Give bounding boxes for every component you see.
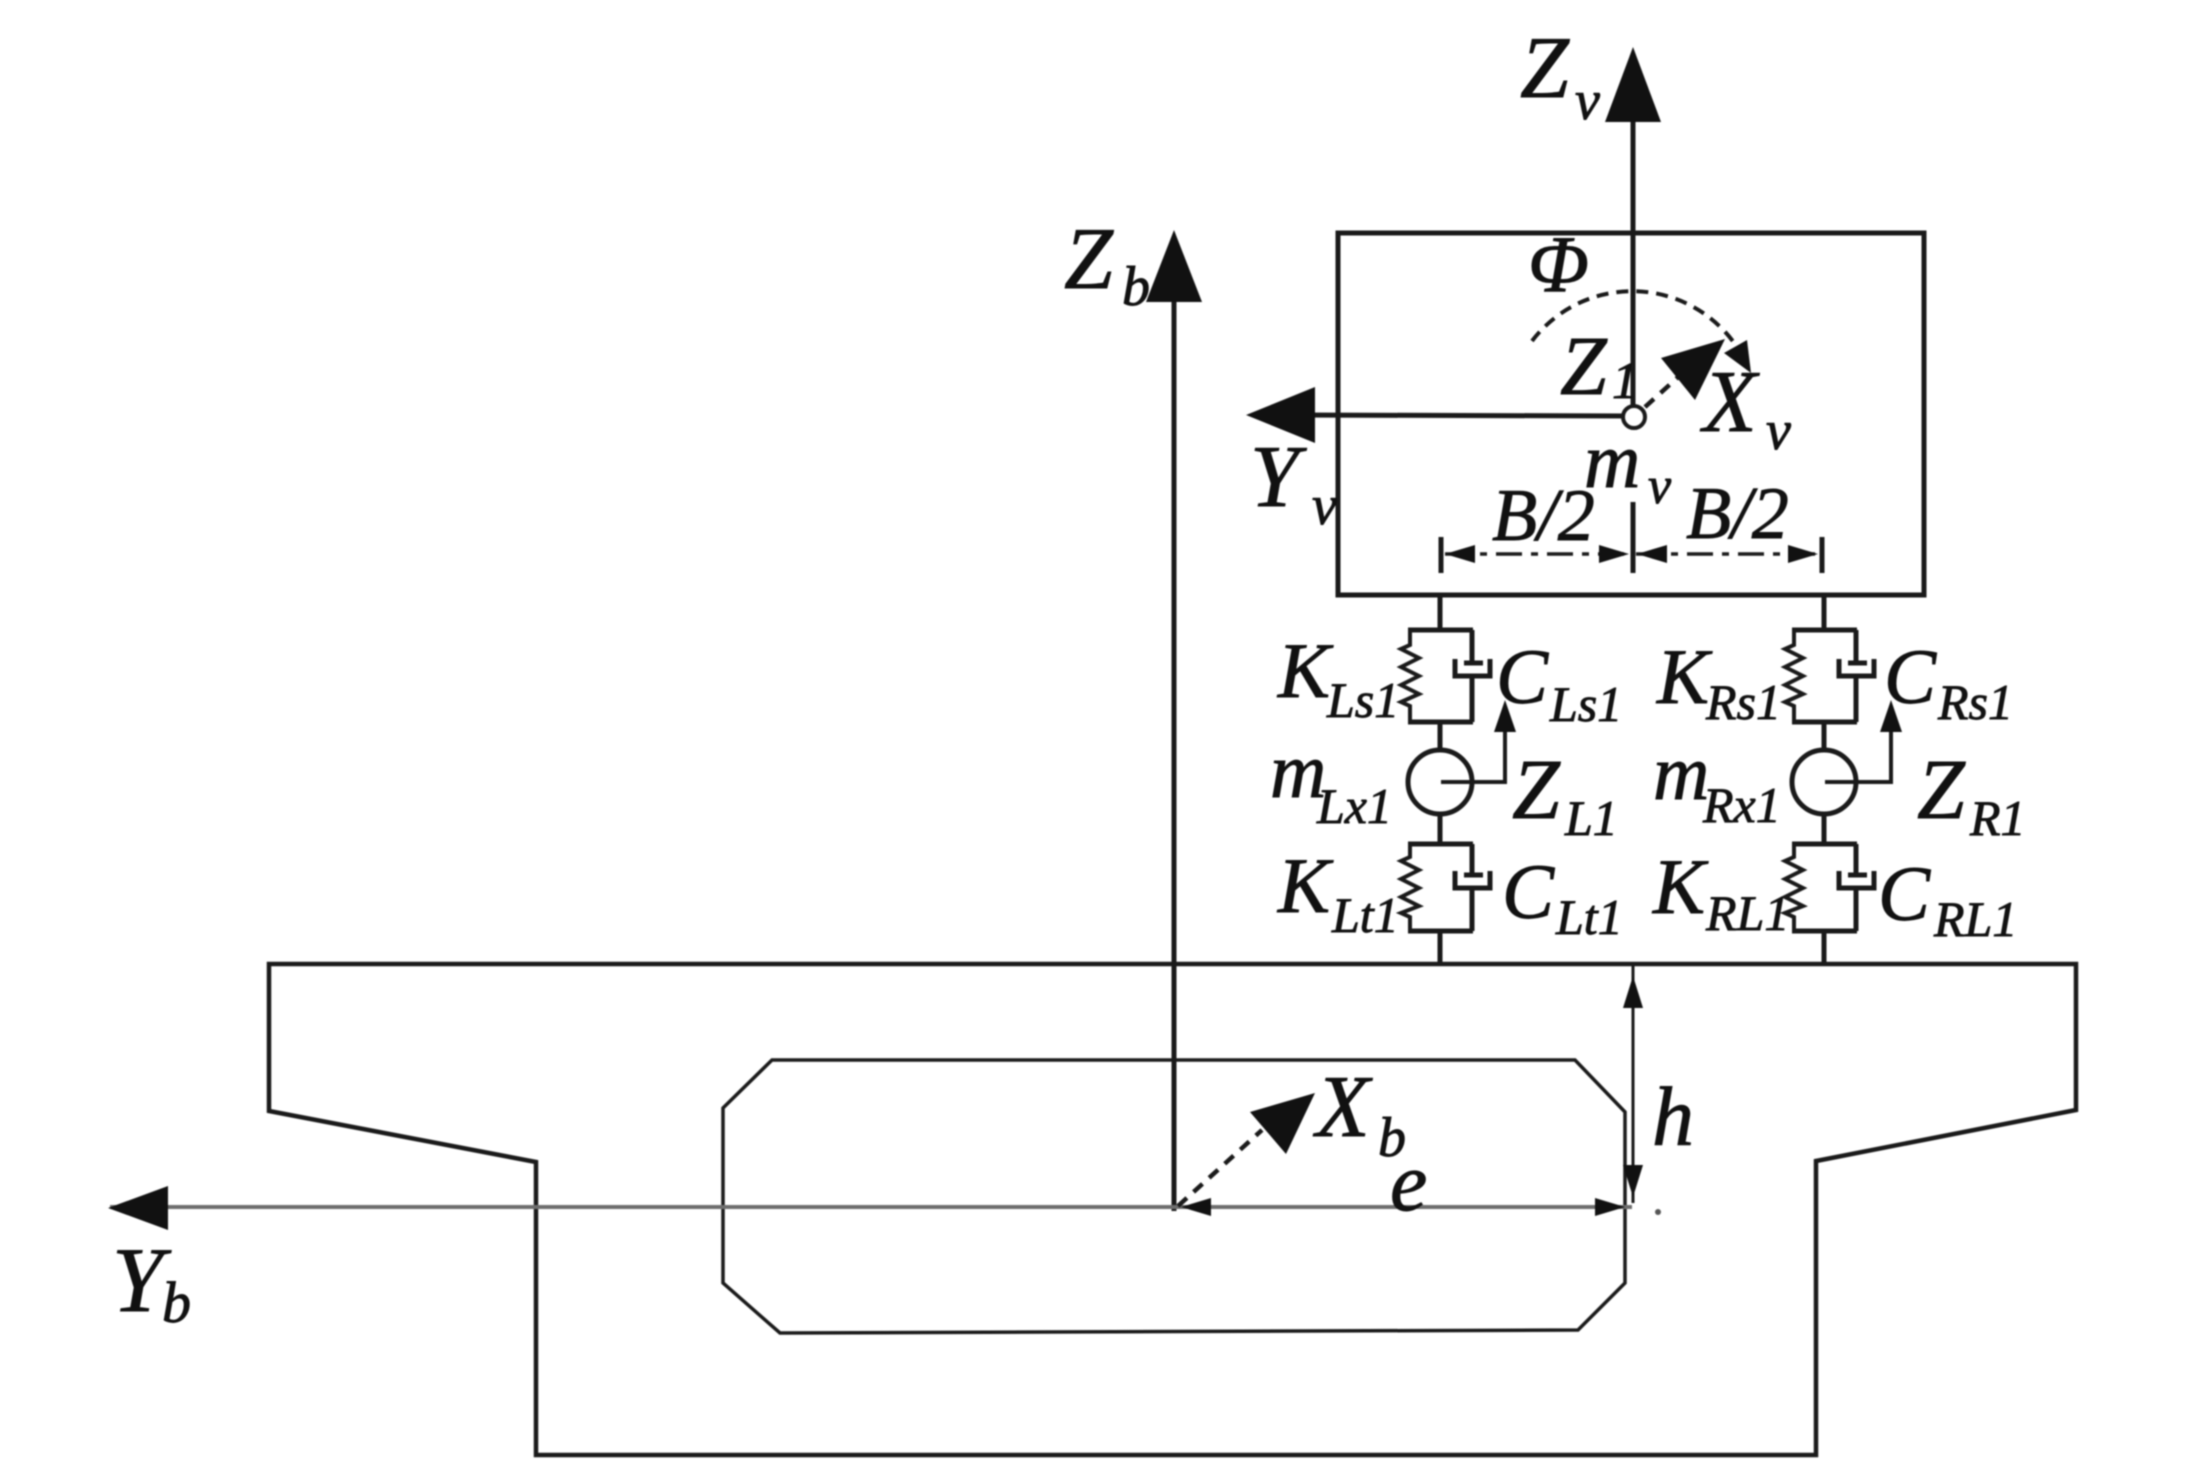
- e dimension arrowheads: [1181, 1198, 1211, 1216]
- ZL1 arrowhead: [1494, 700, 1516, 732]
- axis Xv arrow shaft: [1645, 360, 1697, 407]
- axis Yv arrowhead: [1246, 387, 1315, 443]
- svg-text:Ls1: Ls1: [1549, 676, 1622, 732]
- svg-text:Rs1: Rs1: [1937, 674, 2013, 730]
- wire bottom bar to right mass: [1822, 722, 1827, 752]
- wire mass to tire unit: [1438, 813, 1443, 844]
- wire bottom bar to mass: [1438, 722, 1443, 752]
- left suspension top bar: [1408, 628, 1473, 633]
- svg-text:Z: Z: [1917, 741, 1966, 837]
- damper CLt1 cup: [1455, 871, 1490, 888]
- wire right mass to tire unit: [1822, 813, 1827, 844]
- svg-text:K: K: [1652, 843, 1709, 930]
- damper CLs1 rod: [1470, 630, 1475, 661]
- mass center mv node: [1623, 406, 1645, 428]
- spring KRL1: [1785, 844, 1803, 931]
- h top arrowhead: [1623, 976, 1643, 1008]
- B/2 tick center: [1631, 502, 1636, 573]
- damper CLs1 cup: [1455, 659, 1490, 676]
- ZL1 arrow wire: [1441, 712, 1505, 782]
- svg-text:C: C: [1878, 850, 1931, 937]
- svg-text:v: v: [1648, 458, 1672, 515]
- svg-text:X: X: [1313, 1059, 1373, 1156]
- bridge box-girder outer outline: [269, 964, 2076, 1455]
- wire tire to deck: [1438, 931, 1443, 964]
- h dimension line: [1632, 966, 1635, 1203]
- left tire top bar: [1408, 842, 1473, 847]
- svg-text:Z: Z: [1064, 211, 1114, 308]
- svg-text:Rx1: Rx1: [1702, 777, 1781, 833]
- svg-text:Lt1: Lt1: [1555, 889, 1623, 945]
- damper CLt1 rod: [1470, 844, 1475, 873]
- svg-text:e: e: [1390, 1136, 1427, 1229]
- right suspension top bar: [1792, 628, 1857, 633]
- svg-text:1: 1: [1612, 353, 1638, 410]
- svg-text:Rs1: Rs1: [1705, 674, 1781, 730]
- stray dot: [1655, 1209, 1661, 1215]
- wheel mass mLx1: [1408, 750, 1472, 814]
- B/2 tick left: [1439, 537, 1444, 573]
- damper CRL1 rod: [1854, 844, 1859, 873]
- spring KLs1: [1401, 630, 1419, 722]
- svg-text:Φ: Φ: [1528, 221, 1589, 309]
- svg-text:v: v: [1312, 475, 1337, 537]
- damper CRs1 piston plate: [1848, 661, 1867, 666]
- axis Zb wire: [1172, 302, 1177, 1211]
- vehicle body box mv: [1338, 233, 1924, 595]
- svg-text:Lt1: Lt1: [1331, 887, 1399, 943]
- axis Yb arrowhead: [108, 1186, 168, 1230]
- axis Zv wire: [1631, 122, 1636, 406]
- damper CRs1 lower rod: [1854, 676, 1859, 722]
- damper CRL1 lower rod: [1854, 888, 1859, 931]
- svg-text:C: C: [1502, 848, 1555, 935]
- svg-text:RL1: RL1: [1933, 891, 2017, 947]
- B/2 arrowheads: [1445, 545, 1475, 563]
- svg-text:v: v: [1575, 70, 1600, 132]
- right suspension bottom bar: [1792, 720, 1857, 725]
- B/2 tick right: [1820, 537, 1825, 573]
- svg-text:Z: Z: [1560, 320, 1608, 413]
- bridge inner cell (octagon hollow): [723, 1060, 1625, 1333]
- h bottom arrowhead: [1623, 1165, 1643, 1197]
- axis Yv wire: [1295, 415, 1631, 416]
- left suspension bottom bar: [1408, 720, 1473, 725]
- right tire top bar: [1792, 842, 1857, 847]
- ZR1 arrow wire: [1825, 712, 1891, 782]
- right tire bottom bar: [1792, 929, 1857, 934]
- svg-text:K: K: [1277, 842, 1334, 929]
- right suspension drop wire: [1822, 595, 1827, 630]
- damper CLt1 piston plate: [1464, 873, 1483, 878]
- svg-text:b: b: [1122, 256, 1150, 318]
- svg-text:L1: L1: [1564, 790, 1618, 846]
- svg-text:v: v: [1766, 400, 1791, 462]
- svg-text:K: K: [1656, 633, 1713, 720]
- damper CRL1 piston plate: [1848, 873, 1867, 878]
- axis Zb arrowhead: [1146, 230, 1202, 302]
- axis Xv arrowhead: [1661, 339, 1725, 400]
- damper CLt1 lower rod: [1470, 888, 1475, 931]
- svg-text:B/2: B/2: [1686, 473, 1789, 555]
- wheel mass mRx1: [1792, 750, 1856, 814]
- axis Xb arrow shaft: [1178, 1130, 1262, 1206]
- svg-text:Z: Z: [1520, 20, 1570, 117]
- axis Yb wire: [110, 1205, 1632, 1209]
- svg-text:K: K: [1277, 627, 1334, 714]
- svg-text:Lx1: Lx1: [1316, 778, 1392, 834]
- ZR1 arrowhead: [1880, 700, 1902, 732]
- svg-text:h: h: [1652, 1071, 1694, 1164]
- svg-text:Y: Y: [1250, 429, 1307, 526]
- damper CLs1 piston plate: [1464, 661, 1483, 666]
- damper CRs1 cup: [1839, 659, 1874, 676]
- left tire bottom bar: [1408, 929, 1473, 934]
- damper CRL1 cup: [1839, 871, 1874, 888]
- svg-text:RL1: RL1: [1705, 885, 1789, 941]
- svg-text:R1: R1: [1969, 790, 2026, 846]
- svg-text:Z: Z: [1512, 741, 1561, 837]
- damper CRs1 rod: [1854, 630, 1859, 661]
- svg-text:m: m: [1653, 729, 1709, 816]
- svg-text:Ls1: Ls1: [1326, 672, 1399, 728]
- axis Xb arrowhead: [1250, 1093, 1315, 1154]
- Phi arc arrowhead: [1724, 340, 1751, 373]
- spring KLt1: [1401, 844, 1419, 931]
- damper CLs1 lower rod: [1470, 676, 1475, 722]
- axis Zv arrowhead: [1605, 47, 1661, 122]
- B/2 dimension line: [1445, 552, 1630, 556]
- svg-text:X: X: [1700, 354, 1760, 451]
- left suspension drop wire: [1438, 595, 1443, 630]
- svg-text:B/2: B/2: [1492, 475, 1595, 557]
- svg-text:b: b: [162, 1270, 191, 1335]
- wire right tire to deck: [1822, 931, 1827, 964]
- roll angle Phi arc: [1532, 291, 1737, 347]
- spring KRs1: [1785, 630, 1803, 722]
